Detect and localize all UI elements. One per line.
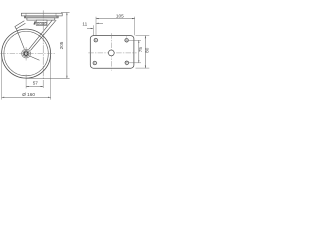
dim Ø160 line (2, 96, 51, 98)
dim 80 bottom extension (136, 67, 150, 69)
wheel axis horizontal centerline (0, 53, 55, 55)
dim 205 arrow up (66, 13, 67, 16)
bolt hole top-left (93, 38, 98, 43)
bolt hole bottom-right (124, 60, 129, 65)
svg-text:105: 105 (116, 14, 124, 19)
dim 75 line (138, 40, 140, 63)
wheel centerline lower extension (25, 75, 27, 89)
housing end tick right (56, 16, 58, 18)
wheel inner rim circle (4, 31, 48, 75)
center kingpin hole (108, 50, 114, 56)
fork right leg back edge (30, 20, 56, 50)
dim 80 arrow down (145, 66, 146, 69)
bolt hole bottom-left (92, 61, 97, 66)
dim 105 line (96, 18, 135, 20)
fork left band end cap (15, 27, 16, 29)
dim 57 arrow right (41, 86, 44, 87)
kingpin block (36, 20, 47, 25)
fork far leg line (16, 29, 24, 49)
section mark left of kingpin (33, 21, 36, 25)
dim 57 arrow left (26, 86, 29, 87)
svg-text:57: 57 (33, 80, 39, 85)
dim 105 left extension (95, 17, 97, 36)
dim 205 top extension line (61, 12, 70, 14)
hub outer ring (22, 49, 31, 58)
dim 105 arrow left (96, 18, 99, 19)
dim 105 arrow right (132, 18, 135, 19)
dim 75 arrow up (138, 40, 139, 43)
dim Ø160 left extension (1, 55, 3, 100)
dim Ø160 arrow right (48, 97, 51, 98)
plate bolt hole hidden line left (25, 13, 27, 16)
dim 75 arrow down (138, 60, 139, 63)
fork left band bottom edge (16, 23, 25, 29)
dim 105 right extension (134, 17, 136, 36)
dim Ø160 right extension (50, 56, 52, 100)
dim 205 arrow down (66, 76, 67, 79)
floor line (26, 77, 70, 79)
svg-text:11: 11 (82, 21, 87, 26)
dim 11 top arrow (from right pointing left) (96, 22, 103, 24)
fork leg lower stub (29, 56, 39, 60)
hub bearing dark ring (24, 52, 28, 56)
dim 11 bottom arrow (from left pointing right) (87, 27, 93, 29)
dim 205 line (66, 13, 68, 79)
dim 80 arrow up (145, 36, 146, 39)
svg-text:80: 80 (144, 47, 149, 53)
kingpin hatch (37, 23, 46, 25)
dim 75 top extension (129, 39, 141, 41)
swivel axis line (42, 10, 44, 88)
dim 11 left extension (92, 25, 94, 35)
plate vertical centerline (110, 33, 112, 71)
bolt hole top-right (124, 36, 129, 43)
plate horizontal centerline (88, 52, 136, 54)
housing end tick left (25, 16, 27, 18)
hub center dot (26, 53, 27, 54)
swivel housing lower layer (27, 18, 55, 20)
dim 80 line (144, 36, 146, 69)
svg-text:205: 205 (59, 41, 64, 49)
swivel housing upper layer (24, 16, 58, 18)
top plate side view (21, 13, 62, 16)
dim Ø160 arrow left (2, 97, 5, 98)
wheel axis vertical centerline through hub (25, 47, 27, 61)
hub middle ring (23, 51, 29, 57)
svg-text:75: 75 (138, 47, 143, 53)
dim 80 top extension (136, 35, 150, 37)
kingpin block mid line (36, 21, 47, 23)
svg-text:Ø 160: Ø 160 (22, 92, 35, 97)
swivel housing upper layer inner line (24, 16, 58, 18)
wheel outer circle (2, 29, 51, 78)
plate bolt hole hidden line right (55, 13, 57, 16)
dim 57 line (26, 86, 43, 88)
fork right leg front edge (29, 20, 53, 49)
dim 75 bottom extension (129, 62, 141, 64)
mounting plate top view (90, 36, 134, 69)
fork left band top edge (15, 21, 24, 27)
